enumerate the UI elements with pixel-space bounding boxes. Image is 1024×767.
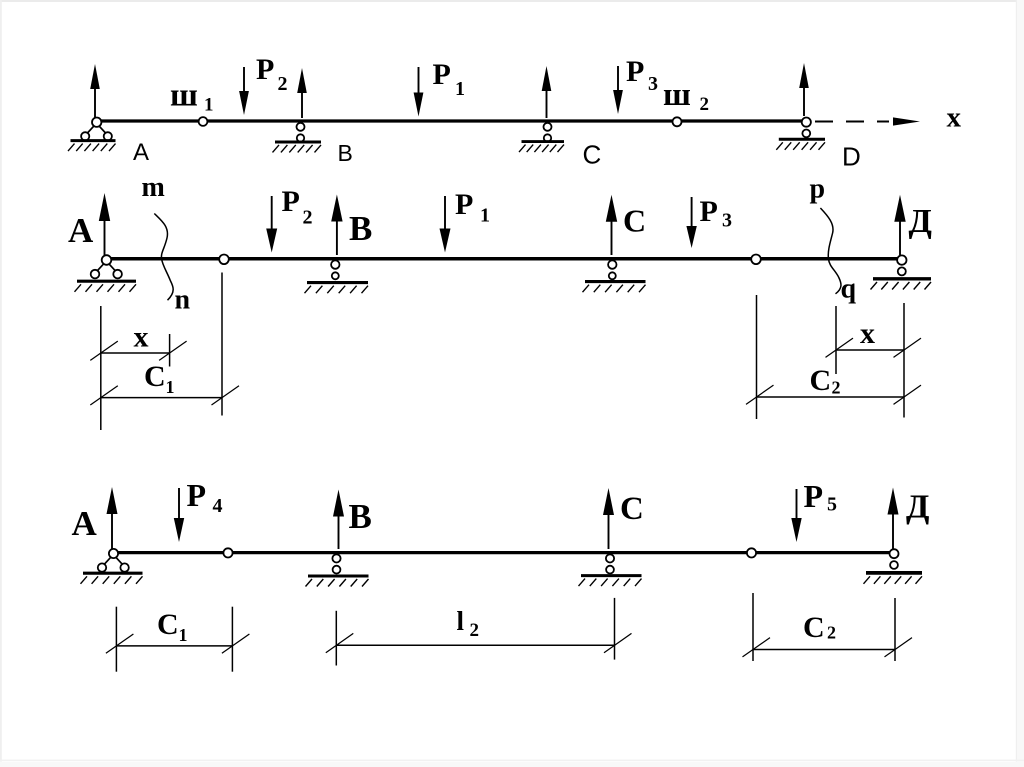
svg-text:B: B	[338, 140, 353, 166]
svg-text:m: m	[142, 172, 165, 203]
reaction arrow at C (beam 1)	[542, 66, 552, 118]
x-axis dashed line	[815, 121, 889, 123]
extension line below A (beam 2)	[100, 306, 102, 430]
svg-text:C: C	[157, 608, 179, 641]
label P2 (beam 2)	[282, 185, 313, 229]
support Д (end pin, beam 2)	[871, 255, 932, 289]
svg-text:C: C	[583, 140, 602, 170]
extension line below Д (beam 2)	[903, 303, 905, 418]
svg-text:Д: Д	[909, 203, 932, 240]
reaction arrow at D (beam 1)	[799, 63, 809, 116]
support A (pin, beam 3)	[81, 549, 143, 584]
dimension line C2 (beam 3)	[743, 638, 913, 657]
hinge 1 (beam 3)	[223, 548, 232, 557]
extension line below A (beam 3)	[115, 607, 117, 672]
svg-text:A: A	[68, 211, 94, 250]
support B (roller, beam 3)	[306, 554, 369, 586]
dimension line C1 (beam 3)	[106, 634, 250, 653]
support C (roller, beam 1)	[519, 123, 564, 152]
extension line below section p-q	[835, 306, 837, 374]
svg-text:B: B	[349, 497, 372, 536]
svg-text:P: P	[626, 55, 644, 88]
svg-text:C: C	[620, 491, 644, 527]
svg-text:x: x	[134, 321, 149, 354]
reaction arrow at A (beam 3)	[107, 487, 118, 549]
load P1 arrow (beam 2)	[440, 196, 451, 253]
svg-text:l: l	[457, 606, 465, 636]
dimension label C2 (beam 2)	[810, 364, 841, 398]
svg-text:C: C	[623, 203, 646, 239]
svg-text:C: C	[810, 364, 832, 397]
hinge ш2 (beam 1)	[673, 117, 682, 126]
svg-text:2: 2	[278, 73, 288, 95]
svg-text:2: 2	[470, 620, 480, 641]
svg-text:x: x	[947, 102, 962, 134]
load P5 arrow (beam 3)	[791, 489, 801, 542]
svg-text:1: 1	[455, 78, 465, 100]
svg-text:B: B	[349, 209, 372, 248]
extension line below B (beam 3)	[335, 611, 337, 666]
reaction arrow at B (beam 2)	[331, 195, 342, 256]
svg-text:2: 2	[700, 94, 710, 115]
reaction arrow at C (beam 3)	[603, 488, 614, 549]
svg-text:1: 1	[179, 625, 188, 645]
support B (roller, beam 2)	[305, 260, 369, 293]
extension line below hinge 1 (beam 3)	[231, 607, 233, 672]
dimension label C2 (beam 3)	[803, 611, 836, 644]
label P5 (beam 3)	[804, 478, 838, 516]
reaction arrow at C (beam 2)	[606, 195, 617, 255]
svg-text:A: A	[133, 139, 149, 166]
dimension line x (beam 2 left)	[90, 341, 186, 360]
svg-text:1: 1	[166, 377, 175, 397]
reaction arrow at Д (beam 2)	[894, 195, 905, 255]
svg-text:P: P	[700, 195, 718, 228]
label P1 (beam 1)	[433, 58, 466, 100]
svg-text:2: 2	[303, 207, 313, 229]
label P1 (beam 2)	[455, 188, 490, 227]
svg-text:P: P	[804, 478, 824, 514]
label ш1	[170, 78, 214, 116]
dimension line x (beam 2 right)	[826, 338, 922, 357]
svg-text:D: D	[842, 142, 861, 172]
svg-text:A: A	[72, 504, 98, 543]
svg-text:P: P	[455, 188, 473, 221]
svg-text:ш: ш	[663, 77, 691, 113]
support C (roller, beam 3)	[579, 554, 642, 586]
section line p-q (wavy cut)	[820, 208, 841, 294]
dimension label C1 (beam 2)	[144, 360, 175, 397]
svg-text:P: P	[187, 477, 207, 513]
reaction arrow at B (beam 3)	[333, 490, 344, 550]
wire beam-1 span A-D	[98, 119, 804, 122]
dimension line C2 (beam 2)	[746, 385, 921, 404]
svg-text:3: 3	[722, 210, 732, 232]
svg-text:q: q	[841, 274, 857, 305]
svg-text:1: 1	[480, 205, 490, 227]
svg-text:Д: Д	[906, 489, 929, 526]
svg-text:n: n	[175, 285, 191, 316]
reaction arrow at B (beam 1)	[297, 68, 307, 118]
svg-text:4: 4	[213, 495, 223, 517]
wire beam-2 span A-Д	[109, 257, 899, 261]
x-axis arrowhead	[893, 117, 920, 125]
svg-text:x: x	[860, 317, 875, 350]
support Д (end pin, beam 3)	[864, 549, 923, 584]
hinge ш1 (beam 1)	[199, 117, 208, 126]
svg-text:P: P	[256, 53, 274, 86]
section line m-n (wavy cut)	[154, 214, 173, 301]
support A (pin, beam 1)	[68, 118, 116, 152]
load P2 arrow (beam 2)	[266, 196, 277, 253]
label P3 (beam 1)	[626, 55, 658, 95]
extension line below hinge 2 (beam 2)	[756, 295, 758, 419]
svg-text:1: 1	[204, 95, 214, 116]
support A (pin, beam 2)	[75, 255, 137, 292]
support B (roller, beam 1)	[273, 123, 322, 153]
svg-text:2: 2	[827, 623, 836, 643]
dimension line l2 (beam 3)	[326, 633, 632, 652]
hinge 1 (beam 2)	[219, 254, 229, 264]
hinge 2 (beam 2)	[751, 254, 761, 264]
extension line below Д (beam 3)	[894, 598, 896, 661]
label ш2	[663, 77, 709, 115]
svg-text:2: 2	[832, 378, 841, 398]
svg-text:3: 3	[648, 73, 658, 95]
svg-text:C: C	[803, 611, 825, 644]
label P2 (beam 1)	[256, 53, 288, 95]
svg-text:P: P	[282, 185, 300, 218]
load P2 arrow (beam 1)	[239, 67, 249, 115]
dimension line C1 (beam 2)	[90, 386, 239, 405]
svg-text:P: P	[433, 58, 451, 91]
label P3 (beam 2)	[700, 195, 733, 232]
label P4 (beam 3)	[187, 477, 223, 517]
svg-text:ш: ш	[170, 78, 198, 114]
load P3 arrow (beam 2)	[686, 197, 696, 248]
hinge 2 (beam 3)	[747, 548, 756, 557]
dimension label C1 (beam 3)	[157, 608, 188, 645]
extension line below hinge 1 (beam 2)	[221, 273, 223, 416]
reaction arrow at Д (beam 3)	[888, 488, 899, 550]
reaction arrow at A (beam 1)	[90, 64, 100, 118]
extension tick line for x (beam 2 left)	[169, 334, 171, 367]
load P4 arrow (beam 3)	[174, 488, 184, 542]
load P3 arrow (beam 1)	[613, 66, 623, 114]
extension line below hinge 2 (beam 3)	[752, 593, 754, 661]
dimension label l2 (beam 3)	[457, 606, 480, 641]
load P1 arrow (beam 1)	[414, 67, 424, 117]
extension line below C (beam 3)	[614, 598, 616, 660]
support D (end pin, beam 1)	[776, 118, 825, 150]
support C (roller, beam 2)	[583, 260, 646, 292]
svg-text:5: 5	[827, 494, 837, 516]
wire beam-3 span A-Д	[116, 551, 892, 554]
svg-text:p: p	[810, 174, 826, 205]
reaction arrow at A (beam 2)	[99, 193, 110, 255]
svg-text:C: C	[144, 360, 166, 393]
